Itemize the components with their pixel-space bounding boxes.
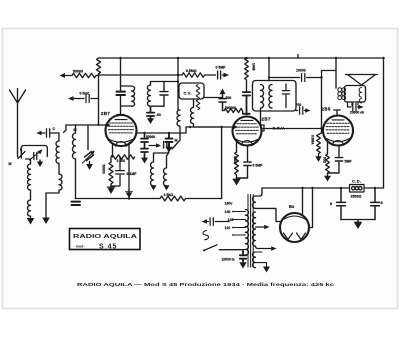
- svg-text:0 5MF: 0 5MF: [253, 164, 264, 168]
- svg-text:RADIO AQUILA: RADIO AQUILA: [73, 234, 137, 240]
- wire B+ to output transformer: [335, 58, 337, 88]
- capacitor 500 arrow up: [219, 94, 226, 111]
- resistor vertical on bus: [97, 58, 101, 76]
- svg-text:2B7: 2B7: [101, 111, 110, 116]
- IF1 feed wire: [120, 58, 122, 91]
- ground tick tube1 return: [126, 193, 132, 198]
- tuning capacitor C.V. box: [179, 83, 204, 99]
- svg-text:125: 125: [228, 218, 234, 222]
- capacitor grid tube2: [243, 92, 250, 114]
- wire IF2 primary to plate: [260, 108, 262, 126]
- tube U2 grids: [236, 124, 259, 134]
- ground: [30, 216, 32, 217]
- tube U1 grids: [109, 123, 134, 133]
- svg-text:C.R.V.: C.R.V.: [273, 126, 286, 130]
- capacitor 8mf right: [371, 188, 380, 220]
- wire plate right: [309, 188, 313, 228]
- oscillator feed wire: [178, 58, 180, 110]
- B+ bus bottom: [262, 187, 384, 189]
- trimmer feed: [87, 125, 89, 150]
- tube U3 pins: [328, 141, 340, 157]
- svg-text:4 5kΩ: 4 5kΩ: [164, 193, 174, 197]
- capacitor 10000 coupling: [269, 74, 322, 82]
- svg-text:450Ω: 450Ω: [233, 156, 237, 165]
- coil L3 secondary: [28, 164, 31, 190]
- capacitor IF1: [160, 82, 168, 107]
- svg-text:RADIO AQUILA — Mod S 45 P: RADIO AQUILA — Mod S 45 Produzione 1934 …: [77, 282, 335, 287]
- variable capacitor vanes: [196, 85, 200, 110]
- coil L2: [59, 174, 62, 190]
- wire stub: [297, 55, 299, 59]
- wire: [151, 82, 179, 107]
- tube U3 cathode: [327, 139, 350, 142]
- svg-text:50Ω: 50Ω: [323, 157, 327, 164]
- svg-text:C.V.: C.V.: [184, 92, 192, 96]
- coil IF2 secondary: [269, 85, 272, 109]
- tube U2 cathode: [236, 139, 259, 142]
- resistor cathode 2500: [111, 151, 135, 199]
- svg-text:C: C: [53, 127, 56, 131]
- ground arrow: [141, 158, 148, 164]
- tube 80 plate arc: [284, 216, 306, 220]
- coil IF1 primary: [121, 86, 135, 106]
- resistor grid stopper vertical: [245, 58, 249, 91]
- wire rail to bus: [75, 159, 77, 199]
- resistor cathode tube2: [235, 152, 239, 178]
- ground: [110, 186, 112, 188]
- svg-text:2B7: 2B7: [262, 117, 271, 122]
- wire AVC tap: [204, 97, 223, 99]
- output transformer box: [345, 86, 366, 103]
- output transformer primary turns: [338, 88, 342, 92]
- power transformer fil2.5: [253, 252, 256, 268]
- resistor 500000: [223, 109, 243, 115]
- svg-text:0 5mf: 0 5mf: [80, 92, 90, 96]
- ground arrow trimmer: [39, 160, 41, 162]
- capacitor blob AVC: [166, 133, 173, 147]
- svg-text:8: 8: [381, 201, 383, 205]
- ground: [239, 262, 246, 268]
- capacitor .00 to ground: [147, 106, 155, 119]
- capacitor trimmer: [164, 142, 169, 154]
- tube 80 filaments: [284, 233, 306, 240]
- svg-text:0.5MA: 0.5MA: [311, 135, 315, 145]
- primary taps: [233, 212, 246, 250]
- svg-text:700: 700: [296, 103, 302, 107]
- svg-text:0 5MF: 0 5MF: [216, 66, 227, 70]
- svg-text:C.D.: C.D.: [352, 180, 362, 184]
- coil below C.V.: [191, 99, 194, 127]
- coil L1 antenna primary: [56, 141, 59, 163]
- nameplate box RADIO AQUILA: [70, 229, 141, 251]
- svg-text:S 45: S 45: [99, 244, 117, 251]
- svg-text:0.5MΩ: 0.5MΩ: [186, 69, 197, 73]
- capacitor 5MF: [328, 158, 343, 173]
- svg-text:500: 500: [226, 96, 232, 100]
- svg-text:2 500: 2 500: [117, 159, 126, 163]
- tube U3 2B5 envelope: [323, 116, 353, 146]
- antenna: [10, 89, 26, 153]
- AVC arrow 0.5mf: [72, 95, 99, 103]
- svg-text:0.1MF: 0.1MF: [127, 172, 138, 176]
- output transformer secondary: [359, 88, 361, 103]
- rectifier tube V4 80: [280, 213, 309, 242]
- svg-text:10000 m: 10000 m: [222, 258, 235, 262]
- svg-text:2500Ω: 2500Ω: [351, 195, 362, 199]
- switch K antenna: [17, 152, 19, 157]
- tube U1 pins: [113, 143, 130, 151]
- svg-text:50000: 50000: [73, 70, 83, 74]
- svg-text:· mod ·: · mod ·: [74, 245, 86, 249]
- fuse: [203, 231, 208, 240]
- switch M band: [64, 125, 67, 133]
- power transformer core: [248, 195, 253, 268]
- capacitor 0.5MF tube2: [237, 162, 252, 178]
- resistor bias 50000 vertical: [109, 162, 113, 186]
- coil osc tickler: [172, 110, 180, 149]
- wire antenna trimmer loop: [21, 146, 47, 159]
- svg-text:.00: .00: [156, 113, 161, 117]
- tube U2 2B7 envelope: [233, 117, 262, 146]
- trimmer arrow M: [149, 145, 158, 147]
- wire plate tube2: [261, 128, 321, 130]
- wire right edge: [383, 58, 385, 188]
- speaker cone: [346, 75, 378, 86]
- wire grid cap tube1: [117, 97, 124, 116]
- svg-text:M: M: [175, 139, 178, 143]
- resistor cathode tube3: [326, 154, 330, 174]
- svg-text:M: M: [74, 128, 77, 132]
- power transformer primary: [246, 210, 249, 256]
- capacitor padder 50000: [141, 133, 148, 158]
- svg-text:5MF: 5MF: [345, 160, 353, 164]
- wire filter bottom: [341, 219, 375, 221]
- capacitor tone 20000: [348, 102, 360, 111]
- svg-text:140: 140: [225, 210, 231, 214]
- bus bottom left: [76, 196, 222, 201]
- wire HV bottom arrow: [256, 246, 273, 249]
- wire det out: [322, 71, 337, 134]
- svg-text:10000: 10000: [296, 69, 306, 73]
- ground arrow: [89, 162, 91, 165]
- wire B+ takeoff: [302, 188, 304, 216]
- ground: [327, 174, 329, 176]
- capacitor line blob: [240, 251, 246, 263]
- wire: [46, 190, 59, 217]
- capacitor 8mf left: [337, 188, 346, 220]
- wire plate tube1: [137, 127, 234, 133]
- svg-text:160v: 160v: [225, 202, 233, 206]
- wire fil80 top to B+ bus: [256, 188, 263, 196]
- bus 2 screen: [99, 71, 225, 79]
- wire to tube2: [194, 126, 222, 128]
- svg-text:1/4M: 1/4M: [252, 63, 256, 71]
- wire grid to tube1: [66, 124, 106, 126]
- capacitor 700: [296, 107, 307, 114]
- coil L4: [28, 200, 31, 216]
- coil IF2 primary: [261, 85, 264, 109]
- coil osc plate: [164, 153, 169, 186]
- svg-text:110: 110: [225, 226, 231, 230]
- top bus B+: [99, 57, 385, 59]
- svg-text:8: 8: [330, 202, 332, 206]
- tube U1 2B7 envelope: [106, 115, 137, 146]
- tube U1 cathode: [109, 139, 134, 142]
- capacitor bypass blob: [72, 202, 81, 205]
- switch mains: [205, 245, 218, 250]
- svg-text:8o: 8o: [289, 204, 295, 209]
- tube U3 grid cap: [334, 110, 340, 116]
- resistor 0.5M: [317, 133, 322, 156]
- wire cathode return: [221, 127, 223, 199]
- svg-text:50000: 50000: [146, 135, 155, 139]
- wire fil80 bottom: [256, 208, 282, 221]
- filter choke C.D.: [350, 185, 365, 193]
- svg-text:500000: 500000: [225, 106, 236, 110]
- svg-text:50000: 50000: [102, 165, 106, 174]
- IF transformer 2 box: [253, 81, 297, 112]
- ground: [42, 218, 50, 225]
- tube U2 pins: [237, 141, 248, 161]
- coil osc grid: [151, 153, 169, 186]
- svg-text:20000 oh: 20000 oh: [350, 111, 364, 115]
- wire fil2.5 stubs: [256, 252, 267, 266]
- trimmer capacitor K: [34, 153, 37, 160]
- wire: [56, 133, 59, 141]
- svg-text:2B5: 2B5: [322, 107, 331, 112]
- AVC resistor arrow 50000: [63, 73, 99, 77]
- wire voice coil stubs: [352, 103, 358, 107]
- trimmer arrow: [83, 153, 93, 163]
- power transformer secondary fil80: [253, 196, 256, 208]
- power transformer HV: [253, 212, 256, 246]
- mains plug capacitor: [206, 218, 230, 226]
- wire: [58, 163, 60, 174]
- ground: [233, 178, 240, 180]
- trimmer capacitor plates: [85, 152, 94, 161]
- center tap arrow: [256, 226, 266, 228]
- capacitor 0.1MF: [111, 157, 124, 186]
- ground filter: [355, 220, 361, 223]
- wire: [30, 190, 32, 200]
- coil IF1 secondary: [147, 85, 150, 106]
- svg-text:M: M: [9, 162, 12, 166]
- capacitor IF2: [283, 84, 290, 108]
- wire IF2 feed: [268, 58, 270, 81]
- capacitor blob: [117, 92, 126, 95]
- tube U2 base tab: [261, 125, 264, 131]
- wire AVC rail: [98, 76, 100, 125]
- coil L5 band: [73, 133, 76, 159]
- capacitor C: [41, 129, 57, 137]
- tube U3 grids: [326, 123, 350, 133]
